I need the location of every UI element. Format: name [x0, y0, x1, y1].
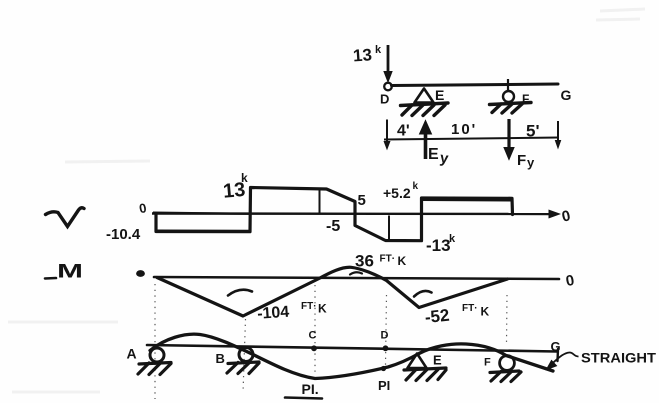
svg-text:D: D [381, 330, 389, 342]
svg-text:k: k [449, 233, 456, 245]
reaction arrow Ey [420, 121, 432, 160]
reaction arrow Fy [504, 119, 514, 160]
tick at G end [556, 349, 559, 361]
smile arc 2 [414, 291, 432, 297]
svg-text:10': 10' [451, 121, 477, 138]
svg-text:FT·: FT· [462, 303, 478, 314]
STRAIGHT leader arrow [547, 352, 579, 369]
svg-text:k: k [375, 44, 382, 56]
deflected curve [150, 334, 553, 378]
moment curve [157, 267, 508, 316]
svg-text:E: E [435, 87, 444, 103]
overdraw -10.4 bottom [157, 230, 249, 232]
pin support E [408, 354, 427, 369]
pin support E [415, 89, 434, 103]
roller support B [239, 348, 253, 362]
roller support F [503, 79, 514, 102]
overdraw axis left [153, 213, 250, 214]
svg-text:13: 13 [352, 45, 372, 65]
svg-text:-13: -13 [426, 236, 451, 255]
svg-text:G: G [561, 87, 572, 103]
svg-text:y: y [527, 155, 535, 170]
svg-text:-104: -104 [257, 304, 290, 323]
node dot C [311, 345, 317, 351]
hatch under E [404, 368, 446, 381]
svg-text:PI.: PI. [302, 381, 319, 397]
dashed line at A [154, 284, 156, 399]
hatch under F [490, 371, 521, 382]
svg-text:5: 5 [358, 192, 366, 209]
beam line D-G [392, 84, 559, 86]
underline under PI. [285, 398, 322, 399]
svg-text:F: F [484, 357, 491, 369]
svg-text:F: F [522, 92, 529, 106]
label -13k [426, 233, 456, 255]
dimension line [384, 138, 559, 140]
svg-text:K: K [481, 305, 490, 319]
svg-text:FT·: FT· [380, 254, 396, 265]
svg-text:FT·: FT· [301, 301, 317, 312]
label 36 Ft-k [355, 252, 407, 271]
load arrow 13k [384, 45, 392, 82]
V axis [152, 210, 560, 218]
extra thick top of +5.2 block [422, 198, 511, 202]
dashed line at B [243, 319, 246, 393]
svg-text:E: E [428, 146, 439, 163]
svg-text:C: C [309, 330, 317, 342]
svg-text:M: M [57, 262, 83, 283]
label M [45, 262, 83, 283]
curve dot near D [381, 366, 386, 371]
label Ey [428, 146, 450, 168]
svg-text:STRAIGHT: STRAIGHT [581, 351, 657, 366]
svg-text:-5: -5 [326, 218, 340, 235]
svg-text:E: E [433, 353, 442, 368]
svg-text:-10.4: -10.4 [106, 226, 141, 243]
M axis [154, 277, 559, 279]
svg-text:5': 5' [526, 122, 540, 141]
dim tick at D [384, 120, 390, 150]
svg-text:K: K [398, 254, 407, 268]
label -52 Ft-k [424, 303, 490, 327]
label 13k [222, 171, 248, 203]
hatch under E [401, 103, 449, 116]
frown arc under 36 peak [350, 272, 362, 274]
svg-text:-52: -52 [424, 306, 450, 327]
tick at x=320 [319, 190, 321, 213]
label 13k load [352, 44, 382, 65]
svg-text:D: D [380, 92, 389, 107]
hatch under B [227, 362, 259, 374]
hatch under A [138, 363, 171, 375]
svg-text:B: B [216, 351, 225, 366]
svg-text:A: A [127, 346, 137, 362]
svg-text:G: G [551, 339, 561, 354]
label -104 Ft-k [257, 301, 327, 323]
svg-text:4': 4' [397, 123, 410, 140]
svg-text:F: F [517, 152, 526, 169]
roller support A [150, 348, 164, 362]
svg-text:k: k [413, 181, 419, 192]
straight beam reference line A-G [147, 345, 557, 352]
svg-text:PI: PI [378, 378, 390, 393]
dashed line at F [506, 295, 509, 343]
svg-text:K: K [318, 302, 327, 316]
label +5.2k [383, 181, 419, 201]
hatch under F [490, 103, 532, 114]
smile arc 1 [228, 290, 252, 296]
node dot D [383, 345, 389, 351]
shear outline [156, 188, 513, 241]
node D circle [384, 83, 392, 91]
tick at x=389 [388, 216, 390, 241]
dashed line at D [386, 295, 387, 365]
svg-text:36: 36 [355, 252, 374, 271]
left 0 dot [136, 270, 145, 277]
svg-text:k: k [241, 171, 248, 185]
roller support F [500, 356, 515, 371]
label Fy [517, 152, 535, 170]
dim tick at G [555, 121, 560, 148]
dashed line at C [314, 285, 316, 376]
label V [46, 208, 85, 227]
svg-text:+5.2: +5.2 [383, 185, 411, 201]
